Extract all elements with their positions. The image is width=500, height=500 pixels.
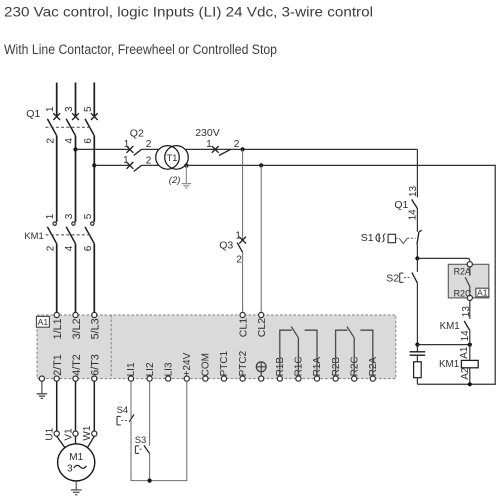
contactor KM1 (3-pole) — [46, 222, 95, 244]
svg-text:R2B: R2B — [331, 357, 342, 377]
svg-text:PTC2: PTC2 — [238, 350, 249, 376]
wire +24V down and across to LI1 — [131, 381, 187, 480]
motor terminal V1 — [73, 431, 78, 436]
wire snubber node to KM1 coil line — [417, 344, 469, 346]
label R1A — [312, 357, 323, 377]
wire phase 3 incoming — [93, 83, 95, 117]
svg-text:1: 1 — [235, 230, 241, 241]
svg-text:4: 4 — [64, 138, 75, 144]
svg-text:A1: A1 — [459, 346, 470, 359]
wire phase 2 KM1 to 3/L2 — [75, 244, 77, 313]
svg-text:S3: S3 — [135, 435, 147, 446]
svg-text:R2A: R2A — [368, 357, 379, 377]
label LI3 — [163, 362, 174, 376]
relay R1 changeover contact — [280, 327, 317, 376]
svg-text:CL2: CL2 — [256, 318, 268, 337]
svg-text:3: 3 — [67, 464, 73, 475]
wire control supply 1 (phase2 to Q2) — [76, 148, 130, 150]
svg-text:(2): (2) — [169, 175, 181, 186]
terminal R2C — [467, 295, 472, 300]
svg-text:1: 1 — [45, 213, 56, 219]
svg-text:A1: A1 — [38, 317, 49, 327]
label U1 — [45, 427, 56, 440]
soft starter A1 reference label — [36, 316, 49, 327]
label R2B — [331, 357, 342, 377]
wire control supply 2 (phase3 to Q2) — [94, 164, 130, 166]
label 4/T2 — [71, 354, 83, 376]
label LI1 — [126, 362, 137, 376]
label PTC1 — [219, 350, 230, 376]
Q1 aux pin label 14 — [407, 209, 418, 221]
svg-text:R2C: R2C — [454, 288, 472, 298]
capacitor of RC snubber — [410, 352, 426, 355]
terminal LI3 — [166, 376, 171, 381]
svg-text:T1: T1 — [167, 153, 178, 163]
circuit breaker Q1 (3-pole) — [46, 113, 98, 136]
pushbutton S4 (NO) — [117, 414, 134, 425]
terminal R2B — [333, 376, 338, 381]
svg-text:4: 4 — [64, 245, 75, 251]
A1 reference label on relay box — [476, 287, 489, 297]
label 5/L3 — [90, 318, 102, 339]
label R2A — [368, 357, 379, 377]
svg-text:1: 1 — [45, 106, 56, 112]
svg-text:6: 6 — [83, 138, 94, 144]
label R2A — [454, 267, 471, 277]
resistor of RC snubber — [414, 362, 422, 378]
node junction KM1 14 to coil — [468, 343, 472, 347]
wire phase 3 KM1 to 5/L3 — [93, 244, 95, 313]
emergency stop pushbutton S1 (NC) — [376, 230, 422, 245]
label R1C — [294, 356, 305, 376]
terminal R2A — [467, 262, 472, 267]
label S2 — [386, 273, 399, 285]
wire 2/T1 to motor U1 — [56, 381, 58, 431]
auxiliary contact KM1 13-14 — [464, 321, 470, 330]
wire coil A2 to bottom return — [469, 368, 471, 385]
motor terminal W1 — [92, 431, 97, 436]
wire phase 1 incoming — [56, 83, 58, 117]
wire Q3 to terminal CL1 — [242, 252, 244, 312]
wire Q1 aux to S1 — [416, 209, 418, 232]
label KM1 coil — [439, 359, 459, 370]
svg-text:6: 6 — [83, 245, 94, 251]
svg-text:R2A: R2A — [454, 267, 471, 277]
svg-text:5: 5 — [83, 106, 94, 112]
wire 6/T3 to motor W1 — [93, 381, 95, 431]
terminal CL1 — [240, 312, 245, 317]
svg-text:M1: M1 — [69, 452, 83, 463]
230V contact pin labels 1 2 — [206, 139, 240, 150]
label V1 — [63, 428, 74, 441]
svg-text:2: 2 — [236, 254, 242, 265]
wire control supply 1 (Q2 to junction and right) — [142, 148, 418, 150]
label CL1 — [238, 318, 250, 337]
svg-text:6/T3: 6/T3 — [90, 354, 102, 376]
svg-text:4/T2: 4/T2 — [71, 354, 83, 376]
node junction control supply 2 to CL2 branch — [259, 163, 263, 167]
node junction S1 S2 R2A — [415, 256, 419, 260]
label S4 — [117, 405, 129, 416]
wire control line down to Q1 aux — [416, 149, 418, 197]
switch contact on 230V line — [212, 146, 231, 155]
wire capacitor to resistor — [416, 355, 418, 362]
KM1 pin labels 1 3 5 — [45, 213, 94, 219]
Q3 pin label 1 — [235, 230, 241, 241]
svg-text:KM1: KM1 — [439, 359, 459, 370]
coil KM1 — [461, 360, 478, 367]
wire S1 to node — [416, 245, 418, 259]
svg-text:14: 14 — [407, 209, 418, 221]
wire phase 1 Q1 to KM1 — [56, 136, 58, 222]
node junction coil return — [468, 382, 472, 386]
svg-text:2: 2 — [45, 138, 56, 144]
label 6/T3 — [90, 354, 102, 376]
KM1 coil pin label A1 — [459, 346, 470, 359]
node junction S3 return — [148, 479, 152, 483]
svg-text:KM1: KM1 — [440, 321, 460, 332]
terminal earth stud — [259, 376, 264, 381]
wire phase 3 Q1 to KM1 — [93, 136, 95, 222]
svg-text:CL1: CL1 — [238, 318, 250, 337]
terminal +24V — [184, 376, 189, 381]
ground symbol at A1 — [37, 381, 48, 398]
label LI2 — [145, 362, 156, 376]
label Q2 — [130, 128, 144, 140]
svg-text:PTC1: PTC1 — [219, 350, 230, 376]
svg-text:3: 3 — [64, 106, 75, 112]
svg-text:1/L1: 1/L1 — [52, 318, 64, 339]
transformer T1 — [156, 146, 189, 170]
svg-text:5/L3: 5/L3 — [90, 318, 102, 339]
label 230V control voltage — [195, 127, 220, 139]
label 2/T1 — [52, 354, 64, 376]
svg-text:2: 2 — [234, 139, 240, 150]
node tap phase 3 to control transformer — [92, 163, 96, 167]
wire S2 down to snubber node — [416, 283, 418, 345]
label Q1 — [26, 108, 40, 120]
svg-text:LI2: LI2 — [145, 362, 156, 376]
motor terminal U1 — [54, 431, 59, 436]
relay R2 changeover contact — [336, 327, 373, 376]
svg-text:S4: S4 — [117, 405, 129, 416]
label Q1 aux — [394, 199, 408, 211]
ground symbol at motor — [71, 481, 82, 495]
svg-text:Q3: Q3 — [219, 239, 233, 251]
KM1 aux pin label 13 — [461, 306, 472, 318]
terminal R2A — [370, 376, 375, 381]
protective earth symbol inside A1 — [256, 362, 266, 376]
label +24V — [182, 352, 193, 376]
Q2 pin labels — [123, 139, 152, 166]
motor M1 3-phase — [57, 436, 95, 481]
svg-text:LI1: LI1 — [126, 362, 137, 376]
wire resistor to bottom return — [416, 378, 418, 385]
label R2C — [454, 288, 472, 298]
svg-text:1: 1 — [206, 139, 212, 150]
svg-text:Q1: Q1 — [394, 199, 408, 211]
wire control supply 2 (Q2 through T1 to right edge) — [142, 165, 496, 384]
label PTC2 — [238, 350, 249, 376]
label Q3 — [219, 239, 233, 251]
terminal LI1 — [128, 376, 133, 381]
label 1/L1 — [52, 318, 64, 339]
svg-text:KM1: KM1 — [24, 230, 43, 241]
relay output box R2A/R2C on A1 — [448, 264, 489, 298]
terminal COM — [203, 376, 208, 381]
svg-text:230V: 230V — [195, 127, 220, 139]
pushbutton S3 (NO) — [135, 445, 149, 453]
svg-text:With Line Contactor, Freewheel: With Line Contactor, Freewheel or Contro… — [4, 42, 277, 57]
label S1 — [361, 232, 374, 244]
wire Q3 branch upper — [242, 149, 244, 239]
svg-text:230 Vac control, logic Inputs: 230 Vac control, logic Inputs (LI) 24 Vd… — [4, 4, 373, 19]
wire phase 2 incoming — [75, 83, 77, 117]
svg-text:13: 13 — [461, 306, 472, 318]
node tap phase 2 to control transformer — [73, 147, 77, 151]
wire 4/T2 to motor V1 — [75, 381, 77, 431]
svg-text:V1: V1 — [63, 428, 74, 441]
label CL2 — [256, 318, 268, 337]
svg-text:S2: S2 — [386, 273, 399, 285]
wire CL2 branch — [260, 165, 262, 312]
label 3/L2 — [71, 318, 83, 339]
terminal LI2 — [147, 376, 152, 381]
node T1 secondary to protective earth — [184, 164, 188, 168]
terminal 4/T2 — [73, 376, 78, 381]
terminal 6/T3 — [92, 376, 97, 381]
terminal 3/L2 — [73, 312, 78, 317]
terminal PTC1 — [221, 376, 226, 381]
wire R2C to KM1 aux — [469, 301, 471, 320]
wire node to R2A terminal — [417, 258, 469, 261]
svg-text:S1: S1 — [361, 232, 374, 244]
svg-text:A1: A1 — [477, 287, 488, 297]
svg-text:2/T1: 2/T1 — [52, 354, 64, 376]
svg-text:U1: U1 — [45, 427, 56, 440]
svg-text:R1B: R1B — [275, 357, 286, 377]
Q1 aux pin label 13 — [408, 185, 419, 197]
terminal R1B — [277, 376, 282, 381]
terminal 2/T1 — [54, 376, 59, 381]
svg-text:13: 13 — [408, 185, 419, 197]
terminal R1A — [314, 376, 319, 381]
svg-text:R1A: R1A — [312, 357, 323, 377]
svg-text:Q2: Q2 — [130, 128, 144, 140]
terminal PTC2 — [240, 376, 245, 381]
node junction snubber top — [415, 343, 419, 347]
label KM1 aux — [440, 321, 460, 332]
svg-text:R2C: R2C — [349, 356, 360, 376]
Q3 pin label 2 — [236, 254, 242, 265]
svg-text:R1C: R1C — [294, 356, 305, 376]
wire S4 to bottom — [130, 421, 132, 481]
svg-text:3: 3 — [64, 213, 75, 219]
ground symbol at T1 (2) — [182, 165, 192, 188]
label S3 — [135, 435, 147, 446]
terminal R2C — [352, 376, 357, 381]
svg-text:5: 5 — [83, 213, 94, 219]
soft starter A1 block body — [37, 315, 396, 379]
label (2) at T1 ground — [169, 175, 181, 186]
svg-text:3/L2: 3/L2 — [71, 318, 83, 339]
wire LI1 to S4 — [130, 381, 132, 417]
Q1 pin labels 1 3 5 — [45, 106, 94, 112]
KM1 pin labels 2 4 6 — [45, 245, 94, 251]
terminal 5/L3 — [92, 312, 97, 317]
auxiliary contact Q1 13-14 — [412, 199, 418, 208]
svg-text:Q1: Q1 — [26, 108, 40, 120]
terminal CL2 — [259, 312, 264, 317]
wire phase 1 KM1 to 1/L1 — [56, 244, 58, 313]
wire KM1 aux to coil — [469, 330, 471, 360]
label KM1 contactor — [24, 230, 43, 241]
label W1 — [82, 425, 93, 440]
start pushbutton S2 (NO) — [400, 273, 418, 284]
wire S3 to bottom node — [149, 454, 151, 481]
svg-text:2: 2 — [146, 139, 152, 150]
label R1B — [275, 357, 286, 377]
svg-text:1: 1 — [123, 155, 129, 166]
node junction 230V line to Q3 branch — [241, 147, 245, 151]
wire node to S2 — [416, 258, 418, 271]
terminal 1/L1 — [54, 312, 59, 317]
svg-text:2: 2 — [45, 245, 56, 251]
svg-text:+24V: +24V — [182, 352, 193, 376]
terminal earth of A1 — [39, 376, 44, 381]
svg-text:LI3: LI3 — [163, 362, 174, 376]
terminal R1C — [296, 376, 301, 381]
svg-text:W1: W1 — [82, 425, 93, 440]
svg-text:2: 2 — [146, 155, 152, 166]
svg-text:1: 1 — [124, 139, 130, 150]
KM1 aux pin label 14 — [460, 330, 471, 342]
label R2C — [349, 356, 360, 376]
KM1 coil pin label A2 — [460, 367, 471, 380]
circuit breaker Q3 — [237, 237, 246, 253]
wire LI2 to S3 — [149, 381, 151, 446]
circuit breaker Q2 (2-pole) — [127, 146, 142, 171]
wire node to capacitor — [416, 345, 418, 352]
wire phase 2 Q1 to KM1 — [75, 136, 77, 222]
Q1 pin labels 2 4 6 — [45, 138, 94, 144]
label COM — [201, 353, 212, 376]
svg-text:COM: COM — [201, 353, 212, 376]
